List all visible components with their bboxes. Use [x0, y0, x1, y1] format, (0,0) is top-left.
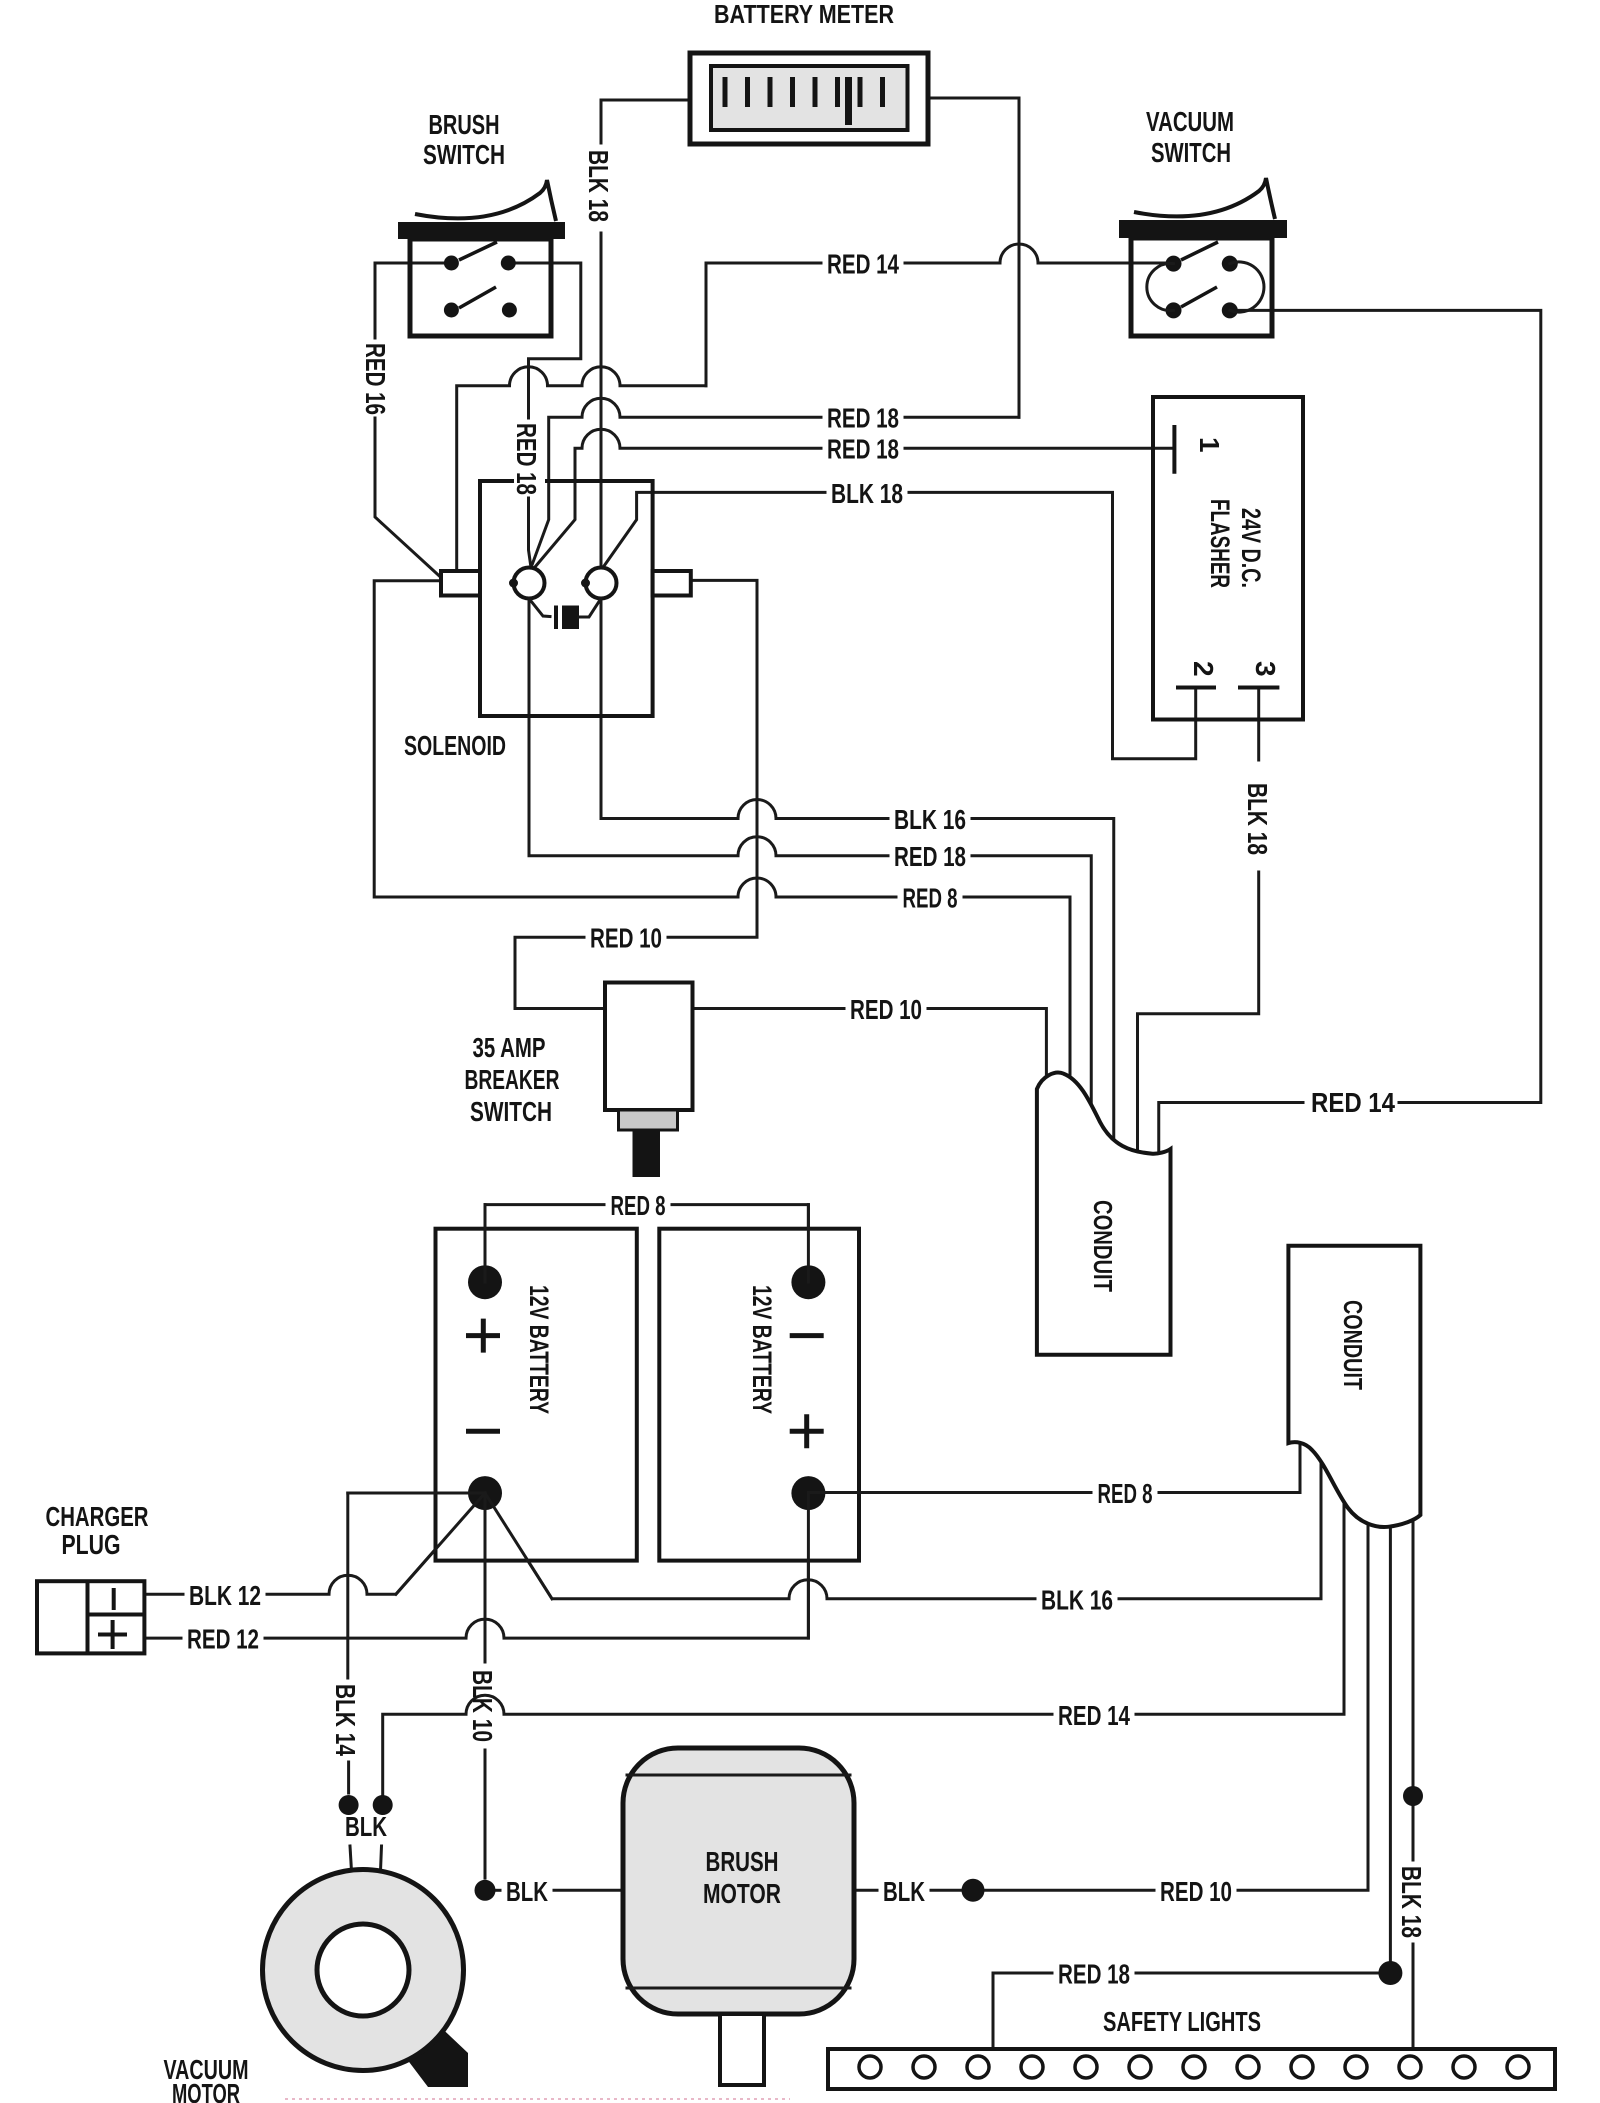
svg-text:CONDUIT: CONDUIT — [1088, 1200, 1118, 1292]
svg-text:BLK 10: BLK 10 — [467, 1670, 498, 1742]
vacuum motor M2 — [263, 1870, 469, 2088]
wire RED10: breaker switch to conduit — [693, 1007, 845, 1010]
battery B1: 12V battery left — [436, 1229, 637, 1561]
svg-text:SWITCH: SWITCH — [470, 1096, 552, 1127]
junction dot: RED14 at vacuum motor — [373, 1795, 393, 1815]
breaker switch CB1 — [605, 983, 693, 1178]
svg-text:SWITCH: SWITCH — [423, 139, 505, 170]
svg-text:SWITCH: SWITCH — [1151, 137, 1231, 168]
svg-text:24V D.C.: 24V D.C. — [1236, 508, 1266, 588]
svg-text:BRUSH: BRUSH — [706, 1846, 779, 1877]
wire BLK10: battery 1 negative down to brush motor junction — [484, 1493, 487, 1662]
svg-text:RED 18: RED 18 — [1058, 1959, 1130, 1990]
pin 2 — [1176, 686, 1216, 690]
svg-text:RED 8: RED 8 — [1098, 1478, 1153, 1509]
wire BLK16 bottom: battery 1 negative to conduit 2, hop over x=808 — [485, 1493, 1035, 1599]
pin 1 — [1172, 425, 1176, 474]
charger plug P1 — [37, 1581, 144, 1653]
wire RED14 bottom: vacuum motor right terminal to conduit 2, hop over x=484.7 — [383, 1695, 1052, 1794]
wire: brush motor right lead / RED10 to conduit 2 — [854, 1889, 877, 1892]
wire BLK18 bottom: conduit 2 down to safety lights — [1412, 1520, 1415, 1786]
svg-text:SOLENOID: SOLENOID — [404, 730, 506, 761]
svg-text:FLASHER: FLASHER — [1205, 499, 1235, 588]
svg-text:CHARGER: CHARGER — [46, 1501, 149, 1532]
conduit 1 — [1037, 1073, 1171, 1355]
brush motor M3 — [623, 1748, 854, 2085]
solenoid left tab — [441, 571, 480, 596]
wire RED18 bottom: safety lights feed — [993, 1973, 1052, 2049]
safety lights LP1 — [828, 2049, 1555, 2089]
svg-text:BREAKER: BREAKER — [465, 1064, 560, 1095]
svg-text:BLK 16: BLK 16 — [894, 804, 966, 835]
svg-text:RED 14: RED 14 — [827, 249, 899, 280]
wire RED8 top: battery jumper — [485, 1205, 604, 1266]
solenoid K1 — [441, 481, 691, 716]
svg-text:RED 10: RED 10 — [1160, 1876, 1232, 1907]
wire RED18 #1: solenoid left coil to battery meter node, hop over x=601 — [532, 398, 821, 565]
svg-text:RED 18: RED 18 — [827, 403, 899, 434]
battery B2: 12V battery right — [659, 1229, 859, 1561]
pin 3 — [1238, 686, 1279, 690]
svg-text:RED 18: RED 18 — [827, 434, 899, 465]
wire: solenoid left tab riser and horizontal with hops over x=528.5 and x=601 — [457, 367, 706, 571]
svg-text:BLK: BLK — [883, 1876, 925, 1907]
decorative dotted line bottom — [285, 2098, 790, 2100]
svg-text:BLK 18: BLK 18 — [831, 478, 903, 509]
solenoid right tab — [653, 571, 691, 596]
svg-text:BLK 18: BLK 18 — [583, 150, 614, 222]
wire BLK18: battery meter left lead down to solenoid right coil — [601, 100, 690, 143]
svg-text:MOTOR: MOTOR — [172, 2078, 240, 2103]
wire BLK18: flasher pin 3 down to conduit — [1257, 688, 1260, 761]
svg-text:BATTERY METER: BATTERY METER — [714, 0, 894, 29]
junction dot: brush motor right — [962, 1879, 985, 1902]
svg-text:1: 1 — [1194, 437, 1225, 453]
wire BLK16: solenoid right coil bottom to conduit, hop over x=757 — [601, 599, 888, 819]
svg-text:RED 14: RED 14 — [1058, 1700, 1130, 1731]
svg-text:35 AMP: 35 AMP — [473, 1032, 546, 1063]
svg-text:PLUG: PLUG — [62, 1529, 121, 1560]
wire: battery terminal connections over battery boxes — [348, 1205, 1091, 1662]
wire BLK14: charger line down to vacuum motor left terminal — [348, 1493, 485, 1678]
svg-text:MOTOR: MOTOR — [703, 1878, 781, 1909]
wire RED18 #2: solenoid left coil to flasher pin 1, hop over x=601 — [535, 429, 821, 567]
svg-text:12V BATTERY: 12V BATTERY — [747, 1285, 777, 1414]
svg-text:2: 2 — [1188, 661, 1219, 677]
solenoid capacitor — [529, 599, 550, 617]
svg-text:RED 14: RED 14 — [1311, 1087, 1395, 1118]
wire: vacuum motor lead stubs — [350, 1846, 352, 1871]
wire BLK18: solenoid right coil to flasher pin 2 — [604, 492, 825, 566]
battery meter M1 — [690, 53, 928, 144]
wire RED10: solenoid right tab down to breaker switch — [668, 580, 757, 937]
svg-text:BLK 16: BLK 16 — [1041, 1584, 1113, 1615]
wire RED8: solenoid left tab down and right to conduit, hop over x=757 — [374, 581, 896, 897]
svg-text:BLK: BLK — [345, 1811, 387, 1842]
svg-text:RED 16: RED 16 — [360, 343, 391, 415]
junction dot: RED18 bottom — [1378, 1961, 1402, 1985]
wire RED18 lower: solenoid left coil bottom to conduit, hop over x=757 — [529, 599, 888, 856]
svg-text:3: 3 — [1250, 661, 1281, 677]
conduit 2 — [1288, 1246, 1420, 1527]
svg-text:SAFETY LIGHTS: SAFETY LIGHTS — [1103, 2006, 1261, 2037]
wire RED12: charger plug to battery 2 positive, hop over x=484.7 — [144, 1637, 181, 1640]
wire RED8 right: battery 2 positive to conduit 2 — [808, 1491, 1091, 1494]
junction dot: BLK14 at vacuum motor — [339, 1795, 359, 1815]
svg-text:BRUSH: BRUSH — [429, 109, 500, 140]
wire: battery meter right lead down to RED18 node at x=1019 — [928, 98, 1019, 417]
wire RED16: brush switch left contact down to solenoid left tab — [375, 263, 444, 338]
svg-text:BLK 12: BLK 12 — [189, 1580, 261, 1611]
junction dot: BLK18 bottom — [1403, 1786, 1423, 1806]
svg-text:RED 8: RED 8 — [611, 1190, 666, 1221]
solenoid coil contacts — [514, 568, 545, 599]
svg-text:12V BATTERY: 12V BATTERY — [524, 1285, 554, 1414]
wire RED18 from brush switch right contact down into solenoid — [508, 263, 581, 418]
svg-text:CONDUIT: CONDUIT — [1338, 1300, 1368, 1390]
flasher U1: 24V D.C. FLASHER box — [1153, 397, 1303, 720]
svg-text:BLK: BLK — [506, 1876, 548, 1907]
svg-text:RED 18: RED 18 — [894, 841, 966, 872]
wire RED14 top: to vacuum switch with hop over x=1019 — [706, 262, 821, 265]
brush switch S1 — [398, 180, 565, 336]
wire BLK12: battery 1 negative to charger plug, hop over x=347.8 — [267, 1493, 485, 1594]
svg-text:RED 10: RED 10 — [590, 923, 662, 954]
svg-text:RED 10: RED 10 — [850, 994, 922, 1025]
svg-text:RED 8: RED 8 — [903, 883, 958, 914]
svg-text:RED 18: RED 18 — [511, 423, 542, 495]
svg-text:RED 12: RED 12 — [187, 1624, 259, 1655]
svg-text:BLK 18: BLK 18 — [1396, 1866, 1427, 1938]
vacuum switch S2 — [1119, 178, 1287, 336]
svg-text:BLK 18: BLK 18 — [1242, 783, 1273, 855]
svg-text:BLK 14: BLK 14 — [330, 1684, 361, 1756]
junction dot: BLK10 at brush motor left — [475, 1880, 496, 1901]
svg-text:VACUUM: VACUUM — [1146, 106, 1234, 137]
wire RED14 long: vacuum switch right contact down right margin to conduit — [1237, 310, 1541, 1102]
